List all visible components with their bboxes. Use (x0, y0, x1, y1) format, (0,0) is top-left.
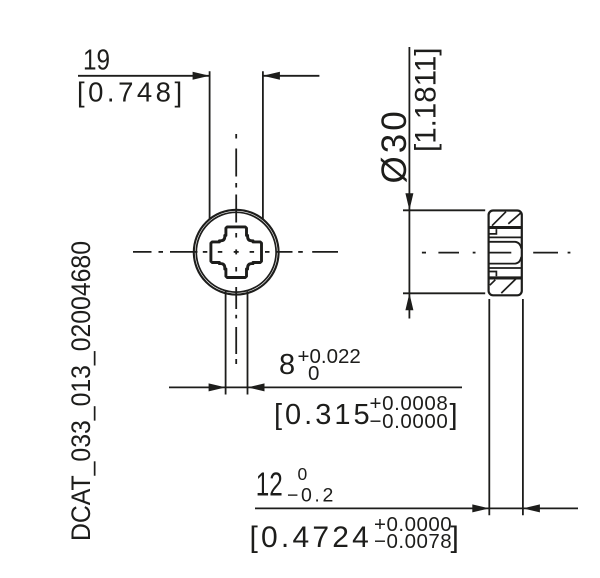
bottom thick band (489, 276, 522, 279)
8-dim right extension line (slot side) (247, 292, 249, 395)
dia30 dimension line (408, 47, 410, 319)
lower slot line with right chamfer (489, 257, 521, 264)
svg-text:[0.4724: [0.4724 (250, 521, 373, 554)
side view body (489, 211, 522, 296)
svg-text:19: 19 (83, 44, 110, 76)
8-dim arrowheads (209, 383, 226, 391)
svg-text:DCAT_033_013_02004680: DCAT_033_013_02004680 (66, 241, 96, 541)
svg-text:−0.0078: −0.0078 (374, 530, 452, 553)
dia30 bottom extension line (403, 292, 485, 294)
vertical centerline (front view) (235, 134, 237, 139)
cross recess outline (211, 227, 262, 278)
8-dim dimension line (169, 386, 462, 388)
upper slot line with right chamfer (489, 242, 521, 249)
19-dim right extension line (262, 71, 264, 219)
svg-text:[0.315: [0.315 (274, 399, 373, 431)
svg-text:0: 0 (308, 362, 319, 385)
horizontal centerline (front view) (133, 251, 152, 253)
upper inner line (489, 236, 521, 238)
front view inner chamfer circle (196, 212, 276, 292)
19-dim left extension line (209, 71, 211, 219)
svg-text:[0.748]: [0.748] (77, 77, 186, 108)
8-dim left extension line (slot side) (225, 292, 227, 395)
bottom hatch lines (490, 280, 496, 285)
12-dim left extension line (488, 299, 490, 515)
top thick band (489, 226, 522, 229)
19-dim arrowheads (193, 72, 210, 80)
front view outer circle (194, 210, 279, 295)
svg-text:]: ] (451, 521, 459, 554)
12-dim arrowheads (472, 504, 489, 512)
bottom-left notch (489, 272, 496, 277)
12-dim right extension line (522, 299, 524, 515)
top hatch lines (492, 212, 506, 226)
dia30 top extension line (403, 209, 485, 211)
svg-text:]: ] (450, 399, 458, 431)
svg-text:−0.2: −0.2 (287, 485, 336, 507)
svg-text:12: 12 (256, 466, 283, 503)
svg-text:+0.022: +0.022 (298, 345, 361, 368)
dia30 arrowheads (405, 193, 413, 210)
svg-text:[1.1811]: [1.1811] (410, 48, 443, 152)
lower inner line (489, 267, 521, 269)
12-dim dimension line (255, 507, 578, 509)
svg-text:Ø30: Ø30 (375, 108, 414, 183)
top-left notch (489, 229, 496, 234)
svg-text:0: 0 (298, 464, 308, 484)
svg-text:−0.0000: −0.0000 (370, 410, 449, 433)
side view centerline (422, 252, 426, 254)
svg-text:8: 8 (279, 349, 295, 381)
19-dim dimension line (78, 75, 210, 77)
